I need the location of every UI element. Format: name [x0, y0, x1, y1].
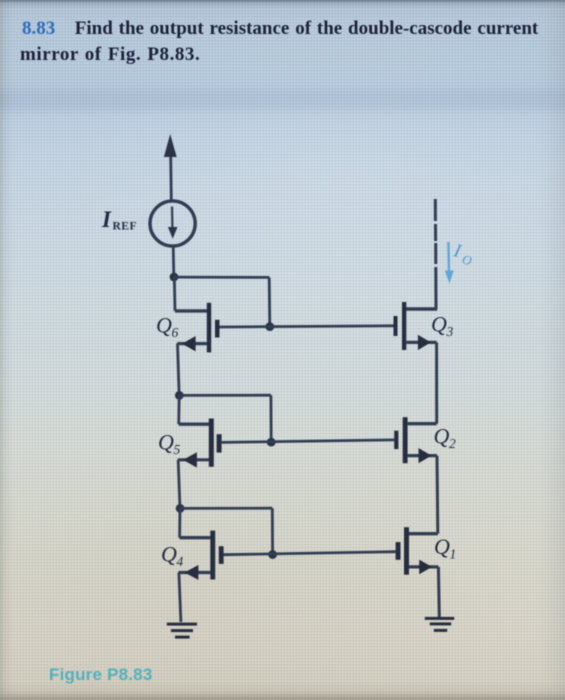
supply arrowhead — [164, 134, 177, 157]
svg-text:O: O — [461, 252, 474, 269]
node gate3 junction dot — [268, 550, 277, 559]
node B junction dot — [175, 391, 184, 400]
transistor Q2 — [394, 417, 407, 463]
wire Q4 source with arrow — [179, 565, 211, 580]
label Io — [450, 240, 476, 268]
wire Q5 drain horizontal — [179, 423, 209, 426]
figure caption Figure P8.83 — [49, 666, 153, 683]
svg-text:4: 4 — [177, 554, 184, 569]
wire Q4 drain horizontal — [180, 536, 211, 539]
supply arrow stem — [169, 150, 172, 201]
node C junction dot — [176, 504, 185, 513]
wire Q3 source with arrow — [406, 335, 436, 350]
svg-text:Q: Q — [431, 312, 447, 337]
transistor Q4 — [210, 531, 223, 580]
label Q5 — [158, 430, 181, 458]
label IREF — [101, 207, 137, 233]
wire Q5 drain vertical — [177, 395, 180, 424]
svg-text:REF: REF — [113, 221, 138, 233]
label Q2 — [434, 424, 457, 452]
wire loop3 horizontal — [180, 507, 272, 510]
transistor Q5 — [209, 419, 222, 467]
wire loop2 vertical — [269, 395, 272, 442]
wire loop2 horizontal — [179, 394, 271, 397]
svg-text:Q: Q — [156, 313, 172, 338]
svg-text:3: 3 — [446, 324, 454, 339]
Io arrow — [445, 242, 454, 284]
transistor Q6 — [207, 303, 220, 353]
transistor Q1 — [396, 527, 409, 575]
output dashed wire — [434, 199, 438, 264]
wire Q3 drain horizontal — [406, 307, 437, 310]
problem statement text — [20, 16, 565, 69]
wire circle to node A — [172, 246, 175, 275]
svg-text:Q: Q — [158, 430, 174, 455]
output wire solid — [434, 267, 437, 309]
wire Q6 source vertical — [178, 344, 180, 394]
svg-text:2: 2 — [449, 436, 456, 451]
IREF internal arrow — [168, 207, 178, 239]
wire Q4 drain vertical — [178, 508, 181, 537]
wire Q1 source with arrow — [409, 560, 438, 575]
wire Q6 drain horizontal — [175, 309, 207, 312]
ground right — [425, 617, 454, 632]
label Q1 — [434, 534, 456, 562]
current source U_IREF circle — [150, 201, 195, 246]
svg-text:5: 5 — [174, 442, 181, 457]
wire gate line stage2 — [222, 440, 395, 443]
label Q3 — [431, 312, 454, 340]
node A junction dot — [170, 273, 179, 282]
ground left — [167, 623, 197, 639]
svg-text:1: 1 — [450, 547, 457, 562]
wire Q6 drain vertical — [173, 277, 176, 311]
wire Q6 source with arrow — [177, 336, 207, 351]
svg-text:Q: Q — [161, 542, 177, 567]
node gate2 junction dot — [267, 438, 276, 447]
svg-text:6: 6 — [172, 325, 179, 340]
label Q4 — [161, 542, 184, 570]
label Q6 — [156, 313, 179, 341]
wire loop3 vertical — [271, 508, 274, 554]
node gate1 junction dot — [265, 322, 274, 331]
wire Q5 source vertical — [178, 460, 180, 507]
svg-text:Q: Q — [434, 424, 450, 449]
svg-text:I: I — [101, 207, 112, 232]
wire loop1 vertical — [268, 277, 271, 326]
wire gate line stage1 — [220, 326, 394, 327]
transistor Q3 — [394, 302, 407, 350]
wire Q1 drain horizontal — [409, 532, 438, 535]
svg-text:Q: Q — [434, 534, 450, 559]
wire gate line stage3 — [223, 552, 396, 555]
wire loop1 horizontal — [174, 276, 269, 279]
wire Q2 source with arrow — [408, 448, 437, 463]
wire Q2 drain horizontal — [408, 422, 437, 425]
wire Q1 to ground — [437, 567, 441, 617]
wire Q4 to ground — [179, 573, 181, 623]
wire Q3 to Q2 — [435, 342, 438, 423]
wire Q2 to Q1 — [436, 456, 440, 534]
wire Q5 source with arrow — [178, 452, 209, 467]
